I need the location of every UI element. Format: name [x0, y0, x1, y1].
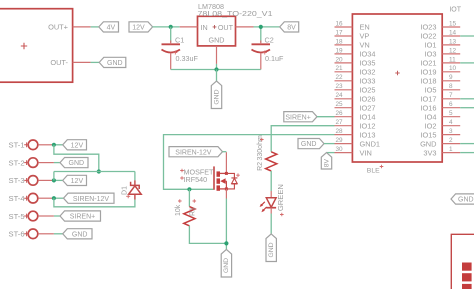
voltage regulator U1 LM7808 — [198, 16, 236, 46]
svg-text:3: 3 — [449, 128, 453, 135]
svg-text:GND: GND — [268, 242, 275, 257]
svg-text:ST-4: ST-4 — [9, 194, 25, 203]
U2 pin 17 (VP) — [335, 35, 353, 37]
net flag GND (regulator, vertical) — [211, 81, 221, 109]
wire 12V rail to D1 cathode — [134, 172, 136, 181]
svg-text:4: 4 — [449, 119, 453, 126]
svg-text:0.33uF: 0.33uF — [176, 54, 199, 63]
R2 origin cross — [260, 138, 264, 142]
U2 pin 8 (IO5) — [442, 89, 460, 91]
svg-text:19: 19 — [336, 47, 344, 54]
svg-text:IO13: IO13 — [360, 130, 376, 139]
U2 pin 4 (IO2) — [442, 125, 460, 127]
svg-text:SIREN-12V: SIREN-12V — [73, 196, 110, 203]
JP1 pad 1 — [462, 263, 472, 271]
wire from pin 11 to sheet edge — [460, 62, 474, 64]
svg-text:C2: C2 — [265, 36, 274, 45]
svg-text:7: 7 — [449, 92, 453, 99]
ground rail wire — [171, 69, 261, 71]
svg-text:SIREN+: SIREN+ — [285, 114, 310, 121]
capacitor C1 0.33uF (polarized) — [162, 41, 181, 70]
wire ST-1 to flag — [54, 144, 63, 146]
svg-text:IOT: IOT — [449, 7, 461, 14]
resistor R1 10k — [184, 207, 195, 226]
U2 pin 12 (IO3) — [442, 53, 460, 55]
wire from pin 2 to sheet edge — [460, 143, 474, 145]
ST-1 pin — [38, 144, 54, 146]
wire rail to GND flag — [216, 70, 218, 82]
svg-text:GND: GND — [209, 36, 225, 45]
wire ST-2 to flag — [54, 162, 60, 164]
svg-text:IO16: IO16 — [420, 103, 436, 112]
net flag SIREN+ (ST-5) — [60, 211, 101, 221]
screw terminal ST-4 — [9, 193, 38, 203]
junction node 12V / C1 — [169, 25, 173, 29]
svg-text:IO3: IO3 — [425, 50, 437, 59]
net flag GND (sheet right edge) — [451, 194, 474, 204]
net flag SIREN-12V (MOSFET drain) — [169, 147, 223, 157]
svg-text:GND1: GND1 — [360, 139, 381, 148]
svg-text:GND: GND — [107, 60, 123, 67]
wire ST-4 SIREN-12V to D1 anode — [54, 198, 135, 207]
wire 12V rail to ST-3 — [53, 172, 55, 181]
net flag SIREN+ (pin 26) — [284, 112, 317, 122]
power supply origin cross — [21, 43, 27, 49]
svg-text:IO21: IO21 — [420, 59, 436, 68]
U2 pin 19 (IO34) — [335, 53, 353, 55]
svg-text:IN: IN — [201, 23, 208, 32]
U2 pin 27 (IO12) — [335, 125, 353, 127]
svg-text:3V3: 3V3 — [423, 148, 436, 157]
svg-text:IO5: IO5 — [425, 86, 437, 95]
svg-text:SIREN+: SIREN+ — [70, 214, 95, 221]
svg-text:11: 11 — [449, 56, 456, 63]
svg-text:IO35: IO35 — [360, 59, 376, 68]
wire OUT+ to 4V flag — [91, 26, 99, 28]
svg-text:16: 16 — [336, 20, 344, 27]
svg-text:GND: GND — [72, 231, 88, 238]
svg-text:IO4: IO4 — [425, 112, 437, 121]
U2 pin 1 (3V3) — [442, 152, 460, 154]
svg-text:ST-1: ST-1 — [9, 141, 25, 150]
net flag GND (MOSFET source, vertical) — [221, 249, 231, 277]
wire gate to R1 — [188, 189, 190, 206]
svg-text:30: 30 — [336, 146, 344, 153]
svg-text:IO25: IO25 — [360, 86, 376, 95]
svg-text:4V: 4V — [107, 25, 116, 32]
junction ST-4 SIREN-12V — [52, 196, 56, 200]
svg-text:ST-6: ST-6 — [9, 230, 25, 239]
junction 12V rail — [97, 169, 101, 173]
svg-text:8: 8 — [449, 83, 453, 90]
Q1 value origin cross — [180, 176, 184, 180]
svg-text:25: 25 — [336, 101, 344, 108]
svg-text:29: 29 — [336, 137, 344, 144]
ST-2 pin — [38, 162, 54, 164]
svg-text:8V: 8V — [323, 158, 330, 167]
wire ST-1 12V down to 12V rail — [54, 145, 99, 172]
U2 pin 25 (IO27) — [335, 107, 353, 109]
junction ground rail — [214, 67, 218, 71]
svg-text:GND: GND — [458, 197, 474, 204]
net flag GND (power supply) — [99, 57, 126, 67]
svg-text:C1: C1 — [175, 36, 184, 45]
resistor R2 330ohm — [266, 152, 277, 171]
svg-text:17: 17 — [336, 29, 344, 36]
U2 pin 22 (IO33) — [335, 80, 353, 82]
ST-4 pin — [38, 197, 54, 199]
svg-text:IO23: IO23 — [420, 23, 436, 32]
svg-text:IO15: IO15 — [420, 130, 436, 139]
wire SIREN-12V flag to MOSFET drain — [223, 151, 227, 153]
svg-text:IO12: IO12 — [360, 121, 376, 130]
U1 pin GND — [216, 46, 218, 64]
net flag 12V (ST-1) — [63, 140, 87, 150]
U2 pin 28 (IO13) — [335, 134, 353, 136]
power supply module (partially off-canvas) — [0, 9, 73, 83]
U2 pin 20 (IO35) — [335, 62, 353, 64]
C1 origin cross — [173, 51, 177, 55]
net flag 8V (regulator output) — [280, 22, 299, 32]
Q1 origin cross — [236, 173, 240, 177]
svg-text:IO22: IO22 — [420, 32, 436, 41]
svg-text:12: 12 — [449, 47, 457, 54]
connector JP1 outline (partially off-canvas, bottom right) — [451, 234, 474, 289]
wire 12V rail horizontal — [54, 171, 135, 173]
MOSFET Q1 IRF540 (N-channel) — [214, 152, 237, 198]
U2 pin 3 (IO15) — [442, 134, 460, 136]
net flag GND (pin 29) — [298, 139, 324, 149]
wire ST-6 to flag — [54, 233, 63, 235]
svg-text:18: 18 — [336, 38, 344, 45]
svg-text:IO34: IO34 — [360, 50, 376, 59]
svg-text:IO2: IO2 — [425, 121, 437, 130]
wire pin 28 IO13 to MOSFET gate — [164, 135, 335, 190]
screw terminal ST-5 — [9, 211, 38, 221]
svg-text:BLE: BLE — [367, 167, 380, 174]
svg-text:OUT-: OUT- — [50, 58, 68, 67]
C2 origin cross — [263, 51, 267, 55]
svg-text:8V: 8V — [287, 25, 296, 32]
net flag 8V (pin 30, vertical) — [321, 153, 331, 169]
screw terminal ST-3 — [9, 176, 38, 186]
U1 pin OUT — [236, 26, 254, 28]
svg-text:9: 9 — [449, 74, 453, 81]
wire from pin 6 to sheet edge — [460, 107, 474, 109]
svg-text:330ohm: 330ohm — [257, 135, 264, 160]
svg-text:IO19: IO19 — [420, 68, 436, 77]
svg-text:IO17: IO17 — [420, 95, 436, 104]
svg-text:5: 5 — [449, 110, 453, 117]
screw terminal ST-1 — [9, 140, 38, 150]
svg-text:0.1uF: 0.1uF — [265, 54, 284, 63]
wire OUT- to GND flag — [91, 61, 100, 63]
svg-text:12V: 12V — [71, 142, 84, 149]
U2 pin 10 (IO19) — [442, 71, 460, 73]
U2 pin 5 (IO4) — [442, 116, 460, 118]
svg-text:22: 22 — [336, 74, 344, 81]
U2 pin 6 (IO16) — [442, 107, 460, 109]
svg-text:D1: D1 — [121, 186, 128, 195]
svg-text:IO27: IO27 — [360, 103, 376, 112]
svg-text:10k: 10k — [175, 204, 182, 216]
IC U2 IOT module outline — [352, 14, 442, 162]
junction ST-1 12V — [52, 143, 56, 147]
svg-text:VIN: VIN — [360, 148, 372, 157]
U2 pin 7 (IO17) — [442, 98, 460, 100]
wire R2 to LED — [270, 171, 272, 191]
diode D1 (zener) — [129, 180, 142, 199]
junction node 8V / C2 — [259, 25, 263, 29]
wire from pin 1 to sheet edge — [460, 152, 474, 154]
wire from pin 7 to sheet edge — [460, 98, 474, 100]
U2 pin 14 (IO22) — [442, 35, 460, 37]
R1 value origin cross — [178, 199, 182, 203]
wire from pin 14 to sheet edge — [460, 35, 474, 37]
wire U1 OUT to 8V flag — [254, 26, 280, 28]
svg-text:R1: R1 — [189, 207, 196, 216]
svg-text:GND: GND — [301, 141, 317, 148]
svg-text:IO14: IO14 — [360, 112, 376, 121]
power supply pin OUT+ — [73, 26, 91, 28]
Q1 name origin cross — [180, 169, 184, 173]
net flag SIREN-12V (ST-4) — [64, 193, 115, 203]
U2 value origin cross — [380, 165, 384, 169]
svg-text:12V: 12V — [71, 178, 84, 185]
junction ST-3 12V — [52, 178, 56, 182]
svg-text:R2: R2 — [257, 162, 264, 171]
wire pin 27 IO12 to R2 — [271, 126, 334, 152]
U2 pin 15 (IO23) — [442, 26, 460, 28]
wire LED cathode to GND — [270, 214, 272, 234]
U2 pin 29 (GND1) — [335, 143, 353, 145]
wire R1 bottom to ground rail — [189, 226, 226, 244]
LED D2 GREEN — [260, 191, 277, 214]
svg-text:IO32: IO32 — [360, 68, 376, 77]
svg-text:GND: GND — [69, 160, 85, 167]
svg-text:GND: GND — [213, 89, 220, 104]
wire ST-3 to flag — [54, 179, 63, 181]
wire 8V node to C2 — [260, 27, 262, 43]
R1 name origin cross — [193, 199, 197, 203]
svg-text:ST-2: ST-2 — [9, 158, 25, 167]
LED origin cross — [280, 213, 284, 217]
svg-text:IO26: IO26 — [360, 95, 376, 104]
U2 pin 26 (IO14) — [335, 116, 353, 118]
svg-text:IO1: IO1 — [425, 41, 437, 50]
U2 origin cross — [395, 71, 399, 75]
svg-text:IO18: IO18 — [420, 77, 436, 86]
JP1 pad 3 — [462, 284, 472, 289]
svg-text:24: 24 — [336, 92, 344, 99]
U1 origin cross — [213, 25, 217, 29]
wire 12V to regulator IN — [153, 26, 180, 28]
ST-6 pin — [38, 233, 54, 235]
net flag GND (ST-2) — [60, 158, 88, 168]
wire ST-5 to flag — [54, 215, 60, 217]
svg-text:GND: GND — [420, 139, 436, 148]
svg-text:VP: VP — [360, 32, 370, 41]
svg-text:21: 21 — [336, 65, 344, 72]
U2 pin 30 (VIN) — [335, 152, 353, 154]
D1 origin cross — [126, 194, 130, 198]
wire SIREN+ flag to pin 26 — [317, 116, 335, 118]
svg-text:ST-3: ST-3 — [9, 176, 25, 185]
svg-text:1: 1 — [449, 146, 453, 153]
ST-5 pin — [38, 215, 54, 217]
svg-text:12V: 12V — [132, 25, 145, 32]
net flag GND (LED, vertical) — [266, 234, 276, 262]
svg-text:ST-5: ST-5 — [9, 212, 25, 221]
svg-text:GND: GND — [223, 258, 230, 273]
svg-text:OUT+: OUT+ — [48, 22, 68, 31]
junction source / R1 ground — [224, 241, 228, 245]
U2 pin 24 (IO26) — [335, 98, 353, 100]
svg-text:GREEN: GREEN — [276, 184, 285, 211]
screw terminal ST-2 — [9, 158, 38, 168]
svg-text:2: 2 — [449, 137, 453, 144]
net flag GND (ST-6) — [63, 229, 92, 239]
net flag 4V — [99, 22, 119, 32]
svg-text:14: 14 — [449, 29, 457, 36]
U2 pin 21 (IO32) — [335, 71, 353, 73]
wire U1 GND to rail — [216, 64, 218, 70]
svg-text:15: 15 — [449, 20, 457, 27]
svg-text:10: 10 — [449, 65, 457, 72]
svg-text:26: 26 — [336, 110, 344, 117]
svg-text:IRF540: IRF540 — [184, 175, 208, 184]
capacitor C2 0.1uF (polarized) — [252, 41, 271, 70]
svg-text:EN: EN — [360, 23, 370, 32]
U2 pin 13 (IO1) — [442, 44, 460, 46]
wire MOSFET source to GND — [225, 199, 227, 250]
svg-text:6: 6 — [449, 101, 453, 108]
svg-text:OUT: OUT — [218, 23, 234, 32]
wire GND flag to pin 29 — [324, 143, 335, 145]
power supply pin OUT- — [73, 61, 91, 63]
svg-text:IO33: IO33 — [360, 77, 376, 86]
U2 pin 2 (GND) — [442, 143, 460, 145]
wire 12V node to C1 — [170, 27, 172, 43]
JP1 pad 2 — [462, 273, 472, 281]
svg-text:23: 23 — [336, 83, 344, 90]
U2 pin 23 (IO25) — [335, 89, 353, 91]
U2 pin 18 (VN) — [335, 44, 353, 46]
svg-text:20: 20 — [336, 56, 344, 63]
junction gate / R1 — [187, 187, 191, 191]
svg-text:78L08_TO-220_V1: 78L08_TO-220_V1 — [198, 9, 273, 18]
wire 8V flag to pin 30 — [327, 152, 335, 154]
U2 pin 16 (EN) — [335, 26, 353, 28]
net flag 12V (ST-3) — [63, 175, 87, 185]
svg-text:27: 27 — [336, 119, 344, 126]
svg-text:VN: VN — [360, 41, 370, 50]
net flag 12V (regulator input) — [129, 22, 153, 32]
wire ST-4 to flag — [54, 197, 64, 199]
screw terminal ST-6 — [9, 229, 38, 239]
U2 pin 11 (IO21) — [442, 62, 460, 64]
U1 pin IN — [180, 26, 198, 28]
svg-text:SIREN-12V: SIREN-12V — [175, 149, 212, 156]
svg-text:13: 13 — [449, 38, 457, 45]
U2 pin 9 (IO18) — [442, 80, 460, 82]
ST-3 pin — [38, 179, 54, 181]
svg-text:28: 28 — [336, 128, 344, 135]
